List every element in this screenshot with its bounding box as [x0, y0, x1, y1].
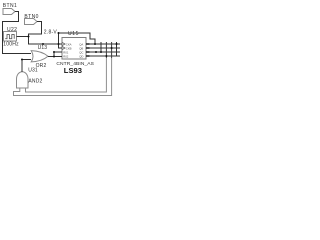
svg-text:R02: R02 [63, 54, 69, 58]
svg-text:AND2: AND2 [28, 79, 42, 85]
junction R02 branch [53, 56, 55, 58]
counter U15 LS93 body [62, 38, 86, 60]
input button BTN1 [3, 9, 15, 15]
svg-text:BTN0: BTN0 [24, 14, 38, 20]
wire QD feedback to AND2 input 2 [26, 58, 107, 92]
junction clock node [28, 36, 30, 38]
junction QA feedback [94, 43, 96, 45]
junction R01 branch [53, 51, 55, 53]
svg-text:U13: U13 [38, 45, 48, 51]
wire clock node to CKA [29, 37, 63, 45]
wire QB feedback to AND2 input 1 [14, 58, 112, 96]
wire BTN1 to OR2 input 1 [3, 12, 32, 54]
wire vertical tap 4 [116, 42, 118, 56]
svg-text:2.8-V: 2.8-V [44, 29, 58, 35]
input button BTN0 [25, 19, 38, 25]
wire oscillator output [17, 36, 29, 38]
pin CKA clock wedge [62, 42, 65, 45]
and-gate U31 [17, 72, 29, 88]
svg-text:QD: QD [79, 54, 83, 58]
junction CKA/CKB tie [58, 43, 60, 45]
svg-text:U15: U15 [68, 31, 79, 37]
wire QB feedback upper segment [111, 42, 113, 58]
svg-text:LS93: LS93 [64, 66, 82, 75]
junction QD tap [105, 55, 107, 57]
clock generator U22 [4, 32, 17, 42]
wire QD row [86, 55, 120, 57]
wire QD feedback upper segment [105, 42, 107, 58]
wire QA feedback to CKB net 2.8-V [59, 33, 96, 44]
junction 2.8-V label [58, 32, 60, 34]
pin stub QA [86, 43, 90, 45]
wire OR2 input 1 stub [29, 53, 31, 55]
junction QC row left [95, 51, 97, 53]
junction QC tap [100, 51, 102, 53]
junction QB tap [111, 47, 113, 49]
wire QB row [86, 47, 120, 49]
wire AND2 output to OR2 input 2 [22, 60, 31, 73]
pin stub QB [86, 47, 90, 49]
or-gate U13 [31, 51, 48, 62]
wire BTN0 to clock node [29, 22, 42, 37]
svg-text:U31: U31 [28, 68, 38, 74]
clock waveform glyph [5, 35, 14, 39]
wire branch to R01 [54, 52, 62, 57]
pin stub QC [86, 51, 90, 53]
wire 2.8-V drop to CKB [59, 33, 63, 48]
junction on CKA row [42, 43, 44, 45]
junction QA tap [116, 43, 118, 45]
svg-text:U22: U22 [7, 27, 17, 33]
pin CKB clock wedge [62, 46, 65, 49]
wire QA row [86, 43, 120, 45]
pin stub QD [86, 55, 90, 57]
svg-text:BTN1: BTN1 [3, 3, 17, 9]
junction AND output corner [21, 59, 23, 61]
wire QC row [86, 51, 120, 53]
wire vertical tap 1 [100, 42, 102, 52]
wire OR2 output to R02 [48, 56, 62, 58]
svg-text:100Hz: 100Hz [3, 41, 19, 47]
